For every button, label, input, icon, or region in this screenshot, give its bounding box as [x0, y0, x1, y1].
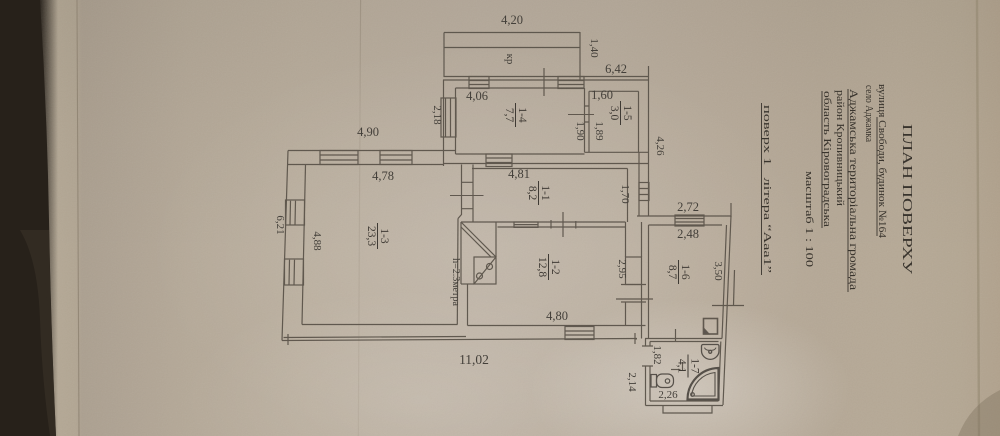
window 1-3 left (b): [285, 259, 304, 285]
window on top wall of 1-3 (b): [380, 151, 412, 165]
room label 1-1 / 8,2: [526, 181, 551, 205]
right wall inner line below 1-5: [638, 152, 640, 216]
room label 1-5 / 3,0: [608, 101, 633, 125]
room label 1-4 / 7,7: [503, 103, 528, 127]
extension line crossing 1-3/1-1 wall: [450, 195, 484, 197]
bathroom left wall line b: [649, 342, 651, 402]
wall 1-4/1-5 line b: [588, 91, 590, 152]
building right outer wall upper: [648, 80, 650, 216]
extension line crossing 1-4/1-5 wall: [568, 114, 594, 116]
building bottom outer wall line2: [284, 337, 467, 338]
tick on right wall: [712, 305, 744, 307]
toilet: [651, 374, 674, 388]
flue square: [704, 319, 718, 335]
room 1-4 bottom line: [456, 153, 585, 155]
room 1-5 top inner wall: [589, 90, 639, 92]
door jamb rungs 1-3/1-1: [462, 182, 474, 208]
underline поверх: [761, 103, 763, 275]
room label 1-2 / 12,8: [536, 254, 561, 280]
window W1 top wall: [469, 77, 489, 89]
bathroom top wall line2: [650, 341, 719, 343]
window on 1-4 left wall: [441, 98, 456, 137]
room 1-2 right wall outer: [641, 222, 643, 339]
stove square: [474, 257, 496, 284]
right section top inner wall: [649, 224, 723, 226]
extension tick 6,42 right end: [648, 66, 650, 80]
staircase rectangle: [461, 222, 496, 284]
room 1-6 left inner wall: [648, 225, 650, 339]
window on bottom wall: [565, 327, 594, 340]
room number fraction labels (rotated): [365, 101, 701, 378]
door ticks bathroom left: [642, 346, 653, 366]
extension line right of 1-6: [734, 270, 735, 305]
porch left wall: [443, 33, 445, 78]
tick2 on 1-1/1-2 wall: [575, 221, 577, 229]
darker bottom right corner: [958, 390, 1000, 436]
faint line right: [977, 0, 979, 436]
room 1-1 top inner line: [472, 168, 628, 170]
window on right wall at 1-1: [639, 183, 649, 201]
building top outer wall line1: [444, 76, 649, 78]
opening box on 1-2 right wall: [626, 257, 642, 285]
extension tick above right wall: [730, 203, 732, 217]
staircase second diagonal: [461, 227, 491, 257]
doorway on 1-1/1-2 wall: [514, 222, 538, 227]
room 1-1 right inner wall: [627, 169, 629, 223]
bathroom left wall line a: [645, 339, 647, 406]
window on top wall of 1-3 (a): [320, 151, 358, 165]
stove diagonal: [474, 257, 496, 284]
building top outer wall line2: [443, 79, 649, 81]
bathroom bottom inner line: [650, 400, 719, 402]
porch inner line: [444, 47, 580, 49]
window on 1-6 top wall: [675, 215, 704, 226]
room 1-4 left wall inner: [455, 88, 457, 154]
extension line above tub vertical: [682, 362, 684, 370]
door ticks 1-2 right: [621, 285, 646, 303]
bathroom step below: [663, 406, 712, 414]
wall 1-1/1-2 lower line: [498, 226, 626, 228]
faint fold center: [0, 0, 1, 1]
door jamb rungs 1-4/1-5: [585, 106, 590, 122]
dimension tick bottom right: [634, 333, 636, 344]
room 1-3 left inner wall: [302, 165, 306, 325]
room 1-6 right inner wall: [722, 225, 727, 339]
bathtub quarter circle: [688, 368, 719, 400]
porch right wall: [579, 32, 581, 80]
right section outer right wall: [723, 216, 731, 405]
extension line crossing 1-2 right wall: [616, 298, 653, 300]
underline for address: [876, 117, 878, 236]
underline область: [821, 91, 823, 228]
dimension tick bottom left: [287, 334, 289, 345]
wall 1-3/1-1 right line: [472, 165, 474, 223]
wall 1-4/1-5 line a: [584, 88, 586, 152]
building left outer wall: [282, 151, 288, 341]
paper crease line left: [77, 0, 79, 436]
bathroom right inner wall: [719, 342, 721, 402]
title block (rotated 90deg): [761, 84, 914, 292]
room 1-3 bottom inner line: [302, 324, 458, 326]
middle band outer line left section: [288, 150, 456, 152]
window below 1-4: [486, 154, 512, 167]
porch (кр) top line: [444, 32, 580, 34]
window 1-3 left (a): [286, 200, 305, 225]
building bottom outer wall line1: [282, 339, 637, 341]
middle band line below 1-4: [444, 163, 649, 165]
bathroom top wall line1: [645, 338, 722, 340]
room label 1-3 / 23,3: [365, 223, 390, 249]
extension tick crossing band below 1-4: [543, 68, 545, 96]
extension tick above tub: [671, 369, 681, 371]
room 1-2 right wall inner: [625, 222, 627, 326]
window W2 top wall: [558, 77, 584, 89]
room 1-2 bottom inner line: [468, 325, 646, 327]
extension tick crossing 1-1/1-2 wall: [562, 212, 564, 237]
room 1-3 right inner wall: [456, 219, 459, 325]
bathroom bottom outer line: [646, 405, 724, 407]
staircase diagonal: [461, 222, 496, 257]
underline громада: [847, 89, 849, 292]
room 1-5 right inner wall: [638, 91, 640, 152]
room 1-5 bottom line: [585, 151, 649, 153]
dark photo background at left edge: [0, 0, 56, 436]
tick on 1-1/1-2 wall: [550, 220, 552, 229]
middle band inner bottom line: [288, 164, 444, 166]
room label 1-6 / 8,7: [666, 260, 691, 284]
room 1-4 left wall outer: [443, 80, 445, 166]
tick crossing bathroom top wall: [675, 329, 677, 342]
stove burner circle 1: [487, 264, 493, 270]
stove bottom closing line: [461, 283, 474, 285]
room 1-4 top inner wall: [456, 87, 585, 89]
stove burner circle 2: [477, 273, 483, 279]
wall 1-1/1-2 upper line: [461, 221, 626, 223]
room label 1-7 / 4,1: [676, 355, 701, 378]
rotated dimension texts: [274, 38, 724, 392]
right section top outer wall: [637, 215, 731, 217]
horizontal dimension texts: [357, 13, 699, 401]
wall 1-3/1-1 left line: [458, 165, 462, 219]
flue corner dot: [704, 328, 710, 334]
line below stove to bottom wall: [467, 284, 469, 326]
sink: [702, 345, 720, 360]
